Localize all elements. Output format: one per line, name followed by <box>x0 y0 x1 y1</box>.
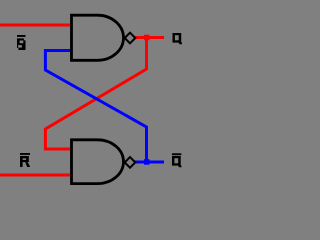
node Q-bar junction dot <box>144 159 150 165</box>
label Q-bar <box>172 153 182 167</box>
wire S-bar input (red) <box>0 24 72 27</box>
wire Q-bar output (blue) <box>135 161 164 164</box>
label S-bar <box>17 35 26 50</box>
NAND gate U1 (top) body <box>72 15 124 60</box>
bubble U2 output diamond <box>125 157 136 168</box>
wire Q output (red) <box>135 36 164 39</box>
bubble U1 output diamond <box>125 33 136 44</box>
label R-bar <box>20 153 30 167</box>
NAND gate U2 (bottom) body <box>72 140 124 184</box>
label Q <box>173 33 183 44</box>
wire R-bar input (red) <box>0 174 72 177</box>
wire feedback from node Q to bottom gate input (red) <box>45 39 146 149</box>
node Q junction dot <box>144 35 150 41</box>
wire feedback from node Q-bar to top gate input (blue) <box>45 51 146 161</box>
